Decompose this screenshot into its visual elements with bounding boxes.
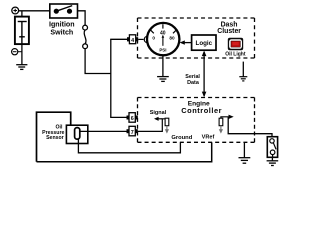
logic box U1 — [192, 35, 216, 50]
battery positive terminal — [12, 7, 19, 14]
svg-text:4: 4 — [131, 38, 134, 44]
svg-text:Ignition: Ignition — [49, 21, 75, 29]
wire sensor vref run (box bottom) — [37, 142, 212, 161]
wire to connector pin 4 — [110, 38, 127, 40]
wire power riser — [110, 39, 112, 117]
wire sensor signal to pin 7 — [80, 130, 127, 132]
svg-text:Controller: Controller — [181, 106, 222, 115]
ground oil light — [239, 77, 247, 81]
svg-text:Data: Data — [187, 80, 200, 86]
ground oil pressure switch — [267, 157, 279, 165]
wire gauge to ground — [162, 55, 164, 76]
ground battery — [16, 65, 27, 70]
svg-text:6: 6 — [131, 116, 134, 122]
svg-text:Ground: Ground — [171, 135, 192, 141]
wire vref node to oil light driver with right arrow — [221, 115, 272, 139]
oil pressure switch — [267, 137, 277, 158]
svg-text:80: 80 — [169, 36, 175, 41]
battery negative terminal — [12, 49, 22, 55]
oil pressure sensor box — [37, 112, 71, 162]
dash cluster box — [138, 18, 255, 58]
battery B1 — [15, 17, 29, 44]
wire battery+ to ignition switch — [18, 10, 50, 12]
svg-text:Cluster: Cluster — [217, 28, 241, 35]
connector pin 6 — [127, 113, 138, 123]
fuse F1 — [83, 25, 88, 48]
connector pin 7 — [127, 126, 138, 136]
wire switch to fuse — [78, 11, 86, 25]
ground engine controller — [239, 142, 251, 163]
wire to connector pin 6 — [110, 116, 126, 118]
arrow logic to gauge — [180, 40, 192, 44]
wire stub into battery top — [21, 11, 23, 17]
label Serial Data — [185, 74, 200, 86]
svg-text:Oil Light: Oil Light — [225, 51, 246, 57]
oil light indicator lamp — [228, 38, 243, 51]
serial data wire with arrows — [202, 51, 207, 98]
label Dash Cluster — [217, 21, 241, 35]
wire battery bottom down — [21, 44, 23, 65]
wire oil light to ground — [242, 62, 244, 77]
label Engine Controller — [181, 101, 222, 115]
svg-text:Signal: Signal — [150, 110, 167, 116]
connector pin 4 — [127, 35, 147, 44]
engine controller box — [138, 98, 255, 143]
svg-text:7: 7 — [131, 130, 134, 136]
switch S1 ignition switch — [50, 4, 78, 18]
svg-text:PSI: PSI — [159, 47, 166, 52]
svg-text:Switch: Switch — [50, 29, 73, 37]
signal arrow pointing left — [154, 117, 162, 121]
grey arrow to ground net R1 — [165, 126, 169, 134]
wire sensor ground run — [78, 139, 180, 153]
wire pin7 riser to signal node — [138, 119, 167, 132]
wire fuse down and right — [85, 49, 111, 74]
gauge meter — [147, 23, 179, 55]
label Oil Pressure Sensor — [42, 125, 64, 142]
ground gauge — [157, 77, 169, 82]
sensor element pill — [75, 128, 80, 140]
svg-text:Sensor: Sensor — [46, 135, 64, 141]
svg-text:0: 0 — [152, 36, 155, 41]
resistor R1 signal pull — [165, 118, 169, 126]
resistor R2 vref pull — [219, 118, 223, 126]
label Ignition Switch — [49, 21, 75, 37]
sensor connector housing — [66, 125, 87, 143]
svg-text:40: 40 — [160, 30, 166, 36]
grey arrow to ground net R2 — [219, 126, 223, 134]
svg-text:VRef: VRef — [202, 134, 215, 140]
svg-text:Logic: Logic — [196, 40, 213, 47]
